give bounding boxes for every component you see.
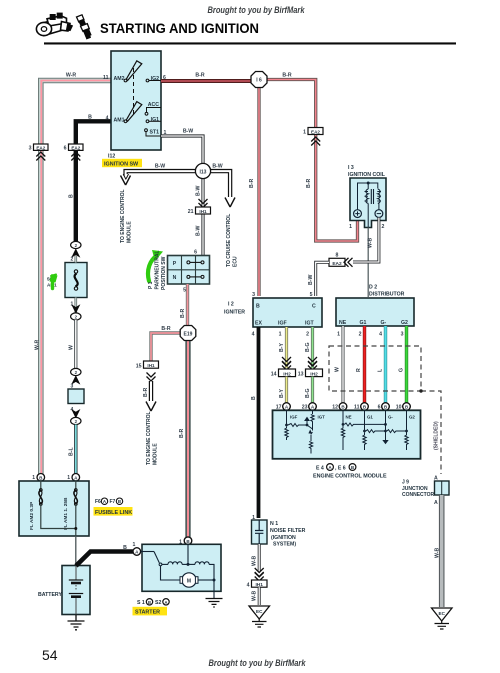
svg-text:W-R: W-R [35, 339, 41, 350]
svg-text:ENGINE CONTROL MODULE: ENGINE CONTROL MODULE [313, 474, 387, 480]
label W vertical [69, 345, 75, 350]
ground starter [206, 599, 223, 608]
svg-text:B: B [88, 115, 92, 121]
label B-W (right branch) [212, 164, 222, 170]
svg-text:B-R: B-R [161, 326, 170, 332]
label P1 PARK/NEUTRAL POSITION SW [148, 250, 167, 290]
svg-text:I 6: I 6 [256, 78, 262, 84]
wire W-B IH1 to ground EC [258, 587, 261, 605]
svg-text:IGNITER: IGNITER [224, 310, 245, 316]
svg-text:B-Y: B-Y [279, 343, 285, 352]
node I6 [251, 72, 267, 88]
label 6 (pin IG2) [163, 75, 166, 81]
wire B-R from IG2 to node I6 [161, 79, 252, 83]
svg-text:NOISE FILTER: NOISE FILTER [270, 528, 306, 534]
svg-text:N: N [173, 275, 177, 281]
title STARTING AND IGNITION [100, 21, 259, 36]
svg-text:AM2: AM2 [114, 76, 125, 82]
svg-text:F6: F6 [95, 499, 101, 505]
connector 8 EA2 (chevrons left) [329, 253, 353, 267]
label W-R vertical [35, 339, 41, 350]
svg-text:EA2: EA2 [311, 129, 320, 134]
ECM pin B12 [332, 403, 347, 411]
svg-text:3: 3 [401, 332, 404, 338]
ECM pin B10 [396, 403, 411, 411]
label A below J9 [434, 500, 438, 506]
svg-text:(IGNITION: (IGNITION [271, 535, 296, 541]
svg-text:Brought to you by BirfMark: Brought to you by BirfMark [208, 5, 306, 16]
svg-text:4: 4 [106, 116, 109, 122]
svg-text:IH1: IH1 [255, 582, 263, 588]
svg-text:B-R: B-R [195, 73, 204, 79]
svg-text:B-W: B-W [196, 226, 202, 236]
label A above J9 [434, 476, 438, 482]
svg-text:1: 1 [133, 542, 136, 548]
label 6 (pin P/N sw) [194, 250, 197, 256]
svg-text:5: 5 [183, 288, 186, 294]
wire B from ignition switch AM1 [76, 121, 111, 242]
label 1 below fuse [71, 302, 80, 313]
svg-text:PARK/NEUTRAL: PARK/NEUTRAL [155, 250, 161, 289]
wire W-R from ignition switch AM2 to fusible link [41, 81, 111, 475]
svg-text:Brought to you by BirfMark: Brought to you by BirfMark [209, 658, 307, 669]
svg-text:CONNECTOR: CONNECTOR [402, 492, 435, 498]
ignition switch I12 [111, 51, 161, 150]
starter switch [141, 551, 154, 553]
svg-text:1: 1 [279, 332, 282, 338]
svg-text:D 2: D 2 [369, 285, 377, 291]
ignition coil I3 labels [348, 165, 386, 178]
label L vertical [378, 368, 384, 372]
label I12 IGNITION SW [102, 154, 142, 168]
svg-text:B-W: B-W [183, 129, 193, 135]
contacts P row [187, 261, 190, 264]
G1/G-/G2 network [365, 410, 407, 432]
coil terminal - (pin 2) [375, 210, 383, 218]
wire W-B noise filter to IH1 [258, 544, 261, 571]
resistor under A17 [285, 427, 288, 441]
svg-text:EA2: EA2 [71, 145, 80, 150]
label F6 A F7 B [95, 498, 123, 505]
ECM pin A17 [276, 403, 291, 411]
label B vertical (EX wire) [251, 396, 257, 400]
svg-text:P: P [173, 261, 177, 267]
junction block connector box [68, 389, 84, 404]
svg-text:14: 14 [271, 372, 277, 378]
svg-text:ECU: ECU [233, 256, 239, 267]
svg-text:1: 1 [337, 332, 340, 338]
transistor Q (IGT driver) [305, 418, 309, 426]
svg-text:IGF: IGF [278, 321, 287, 327]
label 50A AM1 with green scribble [47, 274, 58, 289]
wire W distributor NE to ECM B12 [342, 326, 345, 403]
ground below battery [68, 615, 85, 630]
svg-text:SYSTEM): SYSTEM) [273, 542, 296, 548]
wire B-W node I13 down to park/neutral switch [201, 178, 204, 255]
wire B-W branch to engine control module (left) [121, 170, 197, 186]
svg-text:J 9: J 9 [402, 480, 409, 486]
svg-text:NE: NE [346, 415, 352, 420]
coil terminal + (pin 1) [354, 210, 362, 218]
node E19 [180, 326, 196, 341]
starter terminal A [133, 548, 141, 556]
wire W-B coil pin2 to EA2 [353, 218, 379, 262]
wire B-Y IH2 to ECM pin A17 [285, 377, 288, 403]
svg-text:11: 11 [103, 75, 109, 81]
svg-text:4: 4 [252, 332, 255, 338]
svg-text:, E 6: , E 6 [335, 466, 346, 472]
label R vertical [356, 368, 362, 372]
svg-text:4: 4 [247, 582, 250, 588]
label B-Y vertical (above IH2) [279, 343, 285, 352]
wire B-R node I6 to EA2 to ignition coil [267, 80, 358, 242]
ECM pin B6 [378, 403, 390, 411]
label B-R vertical (branch) [143, 388, 149, 397]
label 4 (pin) [106, 116, 109, 122]
primary winding [366, 189, 368, 203]
distributor pin numbers [337, 332, 404, 338]
svg-text:1: 1 [303, 130, 306, 136]
svg-text:B-R: B-R [249, 179, 255, 188]
svg-text:JUNCTION: JUNCTION [402, 486, 428, 492]
label B-R (left of node) [195, 73, 204, 79]
label B-Y vertical (below IH2) [279, 389, 285, 398]
label 1 (starter pin B) [179, 540, 182, 546]
svg-text:B: B [69, 194, 75, 198]
svg-text:IG2: IG2 [151, 76, 159, 82]
engine control module ECM box [273, 410, 421, 459]
svg-text:B-G: B-G [305, 342, 311, 352]
wire B-G igniter IGT to IH2 [311, 327, 314, 368]
label FUSIBLE LINK highlighted [94, 507, 133, 516]
svg-text:G: G [399, 368, 405, 372]
svg-text:1: 1 [349, 224, 352, 230]
label B-W (ST1 wire) [183, 129, 193, 135]
svg-text:IGT: IGT [318, 415, 326, 420]
battery box [62, 566, 90, 615]
high tension lead coil to distributor [367, 228, 369, 298]
label W-B vertical (right) [435, 547, 441, 558]
svg-text:W: W [335, 367, 341, 372]
switch lever AM2 [124, 79, 127, 82]
fusible link FL AM1 element [75, 481, 77, 490]
svg-text:8: 8 [336, 253, 339, 259]
svg-text:FL AM1 1. 25B: FL AM1 1. 25B [63, 497, 69, 530]
svg-text:21: 21 [188, 209, 194, 215]
label B-R (right of node) [282, 73, 291, 79]
label G vertical [399, 368, 405, 372]
label B-R (E19 left) [161, 326, 170, 332]
starter pull-in coil [195, 562, 209, 565]
label B-W vertical (to igniter) [308, 275, 314, 285]
chevrons on W-B [255, 568, 264, 581]
svg-text:2: 2 [306, 332, 309, 338]
label W-B vertical (noise filter) [252, 555, 258, 566]
svg-text:B-R: B-R [306, 179, 312, 188]
label B-L vertical [69, 447, 75, 456]
svg-text:EA2: EA2 [36, 145, 45, 150]
page number 54 [42, 647, 58, 663]
svg-text:3: 3 [252, 292, 255, 298]
label 4 below junction box, arrow, marker 2 [71, 407, 82, 425]
svg-text:B-W: B-W [155, 164, 165, 170]
svg-text:W-B: W-B [252, 590, 258, 601]
svg-text:EC: EC [439, 611, 446, 616]
svg-text:G-: G- [388, 415, 393, 420]
ECM internal: IGF input network [287, 410, 308, 426]
wire W-B J9 to ground EC [439, 495, 445, 607]
ground EC (center) [249, 606, 270, 627]
svg-text:IH1: IH1 [147, 363, 155, 368]
svg-text:ST1: ST1 [149, 130, 159, 136]
igniter bottom pin numbers [252, 332, 310, 338]
connector 21 IH1 with arrows [188, 199, 211, 215]
svg-text:6: 6 [64, 146, 67, 152]
fuse 50A AM1 box [65, 263, 87, 298]
svg-text:STARTING AND IGNITION: STARTING AND IGNITION [100, 21, 259, 36]
svg-text:B-Y: B-Y [279, 389, 285, 398]
label W-R horizontal [66, 73, 77, 79]
contact ACC [145, 112, 148, 115]
svg-text:IH1: IH1 [199, 209, 207, 214]
wire B-R E19 down to starter [185, 341, 190, 538]
fusible link pin A [67, 474, 79, 482]
wire fusible link to battery [75, 536, 77, 566]
label STARTER highlighted [133, 607, 168, 616]
switch lever AM1 [124, 120, 127, 123]
label 5 (pin P/N sw) [183, 288, 186, 294]
svg-text:N 1: N 1 [270, 521, 278, 527]
ECM pin A23 [302, 403, 317, 411]
label B-R vertical x258 [249, 179, 255, 188]
svg-text:5: 5 [310, 292, 313, 298]
wire B-G IH2 to ECM pin A23 [311, 377, 314, 403]
wire EX black igniter to noise filter [257, 327, 261, 518]
svg-text:B-W: B-W [308, 275, 314, 285]
svg-text:F7: F7 [110, 499, 116, 505]
svg-text:IGT: IGT [305, 321, 314, 327]
coil internal wiring [358, 183, 378, 210]
wire G distributor G2 to ECM B10 [405, 326, 408, 403]
svg-text:G1: G1 [367, 415, 373, 420]
svg-text:G2: G2 [401, 320, 408, 326]
svg-text:TO CRUISE CONTROL: TO CRUISE CONTROL [226, 214, 232, 267]
svg-text:FL AM2 0.3P: FL AM2 0.3P [29, 501, 35, 530]
svg-text:G-: G- [381, 320, 387, 326]
node I13 [195, 163, 210, 178]
svg-text:B-W: B-W [196, 186, 202, 196]
label 1 (pin ST1) [164, 130, 167, 136]
wire link fuse to marker [75, 256, 78, 316]
svg-text:2: 2 [71, 257, 74, 263]
label 11 (pin) [103, 75, 109, 81]
wire B-W from ST1 to node I13 [161, 136, 203, 164]
chevrons on B-G [308, 357, 317, 370]
svg-text:B-R: B-R [180, 309, 186, 318]
wire B-R node I6 down to igniter [257, 88, 260, 296]
svg-text:P 1: P 1 [148, 281, 154, 289]
svg-text:6: 6 [194, 250, 197, 256]
svg-text:E 4: E 4 [316, 466, 324, 472]
svg-text:I 3: I 3 [348, 165, 354, 171]
svg-text:4: 4 [379, 332, 382, 338]
svg-text:13: 13 [298, 372, 304, 378]
svg-text:(SHIELDED): (SHIELDED) [434, 421, 440, 450]
label TO ENGINE CONTROL MODULE (left) [120, 189, 133, 243]
svg-text:C: C [312, 304, 316, 310]
svg-text:1: 1 [164, 130, 167, 136]
connector pair marker 2 on W wire [71, 368, 82, 389]
svg-text:G1: G1 [360, 320, 367, 326]
svg-text:EA2: EA2 [332, 261, 342, 267]
label ENGINE CONTROL MODULE [313, 474, 387, 480]
label E4 A, E6 B [316, 464, 356, 472]
ignition coil I3 [350, 178, 386, 228]
contacts N row [187, 275, 190, 278]
label B-W vertical above IH1 [196, 186, 202, 196]
label TO ENGINE CONTROL MODULE (branch) [146, 411, 159, 465]
starter box [141, 544, 221, 598]
secondary winding [378, 189, 380, 203]
label (SHIELDED) [434, 421, 440, 450]
svg-text:B-R: B-R [282, 73, 291, 79]
svg-text:MODULE: MODULE [127, 221, 133, 243]
wire B-R P/N switch to node E19 [186, 284, 189, 326]
connector 15 IH1 [136, 361, 159, 381]
distributor D2 labels [369, 285, 405, 298]
svg-text:MODULE: MODULE [153, 443, 159, 465]
svg-text:EC: EC [256, 609, 263, 614]
svg-text:B-L: B-L [69, 447, 75, 456]
label B-G vertical (above IH2) [305, 342, 311, 352]
svg-text:2: 2 [382, 224, 385, 230]
ground EC (right) [432, 608, 453, 629]
junction connector J9 [435, 481, 450, 495]
distributor D2 box [336, 298, 414, 326]
wire B-R E19 branch left to IH1 [151, 333, 181, 361]
label J9 JUNCTION CONNECTOR [402, 480, 435, 499]
svg-text:BATTERY: BATTERY [38, 592, 62, 598]
svg-text:G2: G2 [409, 415, 415, 420]
svg-text:15: 15 [136, 363, 142, 369]
svg-text:M: M [187, 578, 191, 584]
connector pair marker 2 below fuse [71, 313, 81, 320]
connector 3 EA2 [29, 144, 48, 161]
connector 13 IH2 [298, 369, 323, 378]
label BATTERY [38, 592, 62, 598]
top credit text [208, 5, 306, 16]
label TO CRUISE CONTROL ECU [226, 214, 239, 267]
fusible link pin B [32, 474, 44, 482]
svg-text:IH2: IH2 [283, 371, 291, 377]
starter terminal B [184, 537, 192, 545]
label B-G vertical (below IH2) [305, 388, 311, 398]
connector 6 EA2 [64, 144, 83, 161]
lever link dashed [133, 68, 135, 116]
svg-text:B-W: B-W [212, 164, 222, 170]
svg-text:R: R [356, 368, 362, 372]
label B-R vertical (above E19) [180, 309, 186, 318]
starter hold-in coil [168, 562, 182, 565]
label S1 B S2 A [137, 599, 169, 606]
label N1 NOISE FILTER [270, 521, 306, 548]
svg-text:I 2: I 2 [228, 302, 234, 308]
svg-text:B-R: B-R [143, 388, 149, 397]
svg-text:IH2: IH2 [310, 371, 318, 377]
label W-B vertical (coil) [368, 237, 374, 248]
svg-text:3: 3 [29, 146, 32, 152]
igniter I2 labels [224, 302, 245, 316]
label B-W (left branch) [155, 164, 165, 170]
svg-text:S 1: S 1 [137, 600, 145, 606]
NE input network [343, 410, 386, 426]
connector pair marker 2 above fuse [71, 241, 82, 262]
wire B-W EA2 to igniter pin C [316, 262, 329, 296]
svg-text:EX: EX [255, 321, 262, 327]
svg-text:I12: I12 [108, 154, 115, 160]
svg-text:I13: I13 [200, 169, 207, 175]
park/neutral position switch P1 [168, 256, 210, 285]
svg-text:B: B [148, 600, 151, 605]
svg-text:W-B: W-B [368, 237, 374, 248]
svg-text:L: L [378, 368, 384, 372]
label B (battery wire) [123, 545, 127, 551]
svg-text:E19: E19 [184, 331, 193, 337]
label B vertical [69, 194, 75, 198]
spark plug icon [77, 15, 91, 39]
svg-text:54: 54 [42, 647, 58, 663]
wire B-Y igniter IGF to IH2 [285, 327, 288, 368]
wire L distributor G- to ECM B6 [384, 326, 387, 403]
coil pin labels [349, 224, 384, 230]
svg-text:W-B: W-B [252, 555, 258, 566]
connector 4 IH1 [247, 580, 267, 588]
svg-text:1: 1 [32, 475, 35, 481]
svg-text:W-R: W-R [66, 73, 77, 79]
svg-text:IGF: IGF [290, 415, 298, 420]
igniter top pin numbers [252, 292, 313, 298]
green annotation arrow on P1 [148, 250, 163, 281]
svg-text:B-G: B-G [305, 388, 311, 398]
label B-R vertical (to starter) [179, 429, 185, 438]
svg-text:DISTRIBUTOR: DISTRIBUTOR [369, 292, 405, 298]
label 1 (noise filter pin) [252, 515, 255, 521]
fusible link FL AM2 element [40, 481, 42, 490]
wire R distributor G1 to ECM B11 [363, 326, 366, 403]
svg-text:IGNITION SW: IGNITION SW [104, 161, 139, 167]
contact IG2 [146, 79, 149, 82]
connector 14 IH2 [271, 369, 296, 378]
connector 1 EA2 (top right) [303, 128, 323, 146]
header rule [44, 42, 456, 44]
svg-text:2: 2 [359, 332, 362, 338]
label B horizontal [88, 115, 92, 121]
svg-text:NE: NE [339, 320, 347, 326]
svg-text:W-B: W-B [435, 547, 441, 558]
contact ST1 [145, 129, 148, 132]
ECM pin B11 [354, 403, 368, 411]
wire B-R IH1 to arrow (to engine control module) [146, 381, 156, 411]
svg-text:W: W [69, 345, 75, 350]
contact IG1 [146, 120, 149, 123]
bottom credit text [209, 658, 307, 669]
svg-text:IGNITION COIL: IGNITION COIL [348, 172, 386, 178]
svg-text:6: 6 [163, 75, 166, 81]
svg-text:TO ENGINE CONTROL: TO ENGINE CONTROL [120, 189, 126, 243]
wire B-W branch to cruise control ecu (right) [210, 170, 235, 208]
label W-B vertical (below IH1) [252, 590, 258, 601]
wire B battery to starter [76, 552, 133, 566]
